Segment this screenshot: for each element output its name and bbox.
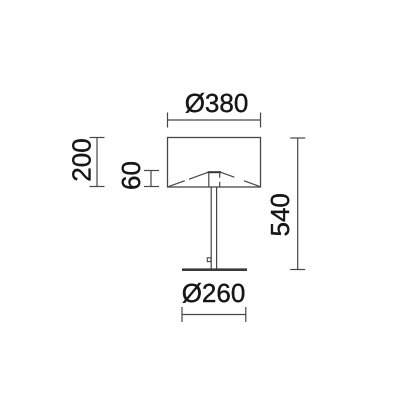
dimension Ø260 right tick: [245, 307, 247, 322]
inner cone right diagonal (dashed): [221, 172, 260, 186]
dimension Ø260 line: [182, 314, 246, 316]
socket left side: [208, 173, 210, 187]
base plate: [182, 268, 247, 271]
dimension Ø380 line: [168, 119, 261, 121]
svg-text:Ø260: Ø260: [182, 278, 246, 308]
dimension 60 line: [150, 171, 152, 187]
dimension Ø260 left tick: [181, 307, 183, 322]
lamp shade outline: [168, 138, 261, 188]
dimension 540 bottom tick: [290, 269, 305, 271]
svg-text:200: 200: [66, 138, 96, 181]
dimension Ø380 left tick: [167, 113, 169, 128]
dimension 540 top tick: [290, 137, 305, 139]
svg-text:60: 60: [116, 161, 146, 190]
dimension 200 bottom tick: [90, 186, 105, 188]
dimension Ø380 right tick: [260, 113, 262, 128]
svg-text:Ø380: Ø380: [185, 88, 249, 118]
dimension 200 line: [96, 138, 98, 187]
svg-text:540: 540: [265, 193, 295, 236]
dimension 540 line: [297, 138, 299, 270]
stem left line: [210, 187, 212, 269]
dimension 200 top tick: [90, 137, 105, 139]
dimension 60 top tick: [144, 170, 159, 172]
socket right side (hidden, dashed): [219, 173, 221, 188]
switch on stem: [207, 258, 211, 262]
socket top cap: [208, 171, 221, 173]
dimension 60 bottom tick: [144, 186, 159, 188]
stem right line: [216, 187, 218, 269]
inner cone left diagonal (dashed): [169, 172, 208, 186]
